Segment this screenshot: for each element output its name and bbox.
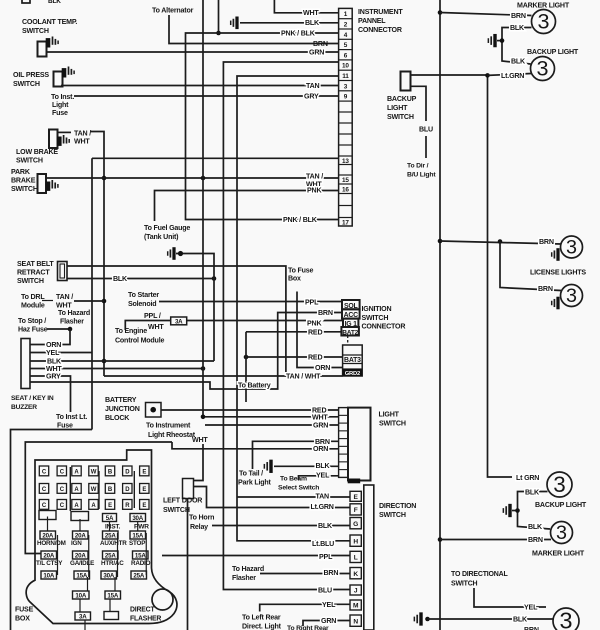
wire rheostat to light switch GRN xyxy=(205,424,338,426)
svg-text:15A: 15A xyxy=(135,553,146,560)
seat key in buzzer connector xyxy=(21,339,30,389)
svg-text:GRN: GRN xyxy=(321,617,336,625)
svg-text:AUX/HTR: AUX/HTR xyxy=(100,540,127,547)
wire engine control module to 3A fuse xyxy=(125,321,170,331)
wire ground vertical to buzzer BLK wire xyxy=(176,254,214,362)
svg-text:LOW BRAKE: LOW BRAKE xyxy=(16,148,58,156)
svg-text:PPL /: PPL / xyxy=(144,312,161,320)
svg-text:25A: 25A xyxy=(105,533,116,540)
svg-text:Lt.GRN: Lt.GRN xyxy=(311,503,334,511)
wire ground to pin 2 BLK xyxy=(240,22,339,24)
svg-text:SWITCH: SWITCH xyxy=(22,27,49,35)
wire PPL from fuse box to direction L xyxy=(162,555,350,557)
instrument panel connector xyxy=(339,8,353,226)
svg-text:To Inst.: To Inst. xyxy=(51,93,74,101)
svg-text:25A: 25A xyxy=(105,553,116,560)
svg-text:YEL: YEL xyxy=(322,601,336,609)
svg-text:W: W xyxy=(91,487,97,493)
svg-text:YEL: YEL xyxy=(46,349,60,357)
wire WHT to light switch xyxy=(203,416,338,418)
svg-text:BACKUP LIGHT: BACKUP LIGHT xyxy=(527,48,579,56)
wire alternator to pin 5 BRN xyxy=(169,15,339,44)
license light bulb 2 xyxy=(561,285,583,307)
backup light bulb lower xyxy=(547,472,572,497)
svg-text:SWITCH: SWITCH xyxy=(13,80,40,88)
svg-text:SWITCH: SWITCH xyxy=(163,506,190,514)
wire fuse box feed loop xyxy=(25,442,172,554)
wire RED to BAT2 xyxy=(246,331,341,333)
svg-text:Box: Box xyxy=(288,275,301,283)
wire starter solenoid to SOL xyxy=(159,301,342,303)
svg-text:BRN: BRN xyxy=(528,536,543,544)
fuse 25A aux xyxy=(103,531,119,539)
wire ORN jog from W2 to light switch xyxy=(172,442,338,449)
park brake switch xyxy=(38,174,47,193)
svg-text:BRN: BRN xyxy=(313,40,328,48)
svg-text:TAN: TAN xyxy=(316,493,330,501)
node dot bottom ground xyxy=(425,617,430,622)
svg-text:BRN: BRN xyxy=(324,569,339,577)
svg-text:20A: 20A xyxy=(75,553,86,560)
svg-text:SWITCH: SWITCH xyxy=(387,113,414,121)
svg-text:GRD2: GRD2 xyxy=(345,371,360,377)
svg-text:Lt GRN: Lt GRN xyxy=(516,474,539,482)
svg-text:PANNEL: PANNEL xyxy=(358,17,386,25)
node dot battery tap xyxy=(244,355,249,360)
svg-text:RED: RED xyxy=(308,328,322,336)
svg-text:SWITCH: SWITCH xyxy=(17,277,44,285)
ground symbol license 1 xyxy=(551,252,553,257)
node dot right vertical at license lights xyxy=(438,239,443,244)
wire horn relay BLK to direction G xyxy=(212,525,350,527)
ignition BAT2 box xyxy=(341,327,359,336)
wire GRN bracket to direction N xyxy=(303,621,350,627)
svg-text:SWITCH: SWITCH xyxy=(11,185,38,193)
node dot pin4 junction xyxy=(216,31,221,36)
svg-text:15A: 15A xyxy=(107,593,118,600)
svg-text:WHT: WHT xyxy=(148,323,164,331)
node dot WHT at long vertical xyxy=(201,366,206,371)
svg-text:LICENSE LIGHTS: LICENSE LIGHTS xyxy=(530,269,586,277)
svg-text:HORN/DM: HORN/DM xyxy=(37,540,66,547)
svg-text:WHT: WHT xyxy=(192,436,208,444)
svg-text:BLK: BLK xyxy=(528,523,543,531)
fuse 10A c xyxy=(73,591,90,599)
svg-text:15A: 15A xyxy=(76,573,87,580)
ignition ACC box xyxy=(342,309,360,318)
svg-text:PNK / BLK: PNK / BLK xyxy=(283,216,318,224)
svg-text:E: E xyxy=(108,503,112,509)
wire pin 4 riser xyxy=(218,0,220,33)
fuse 15A radio xyxy=(133,551,149,559)
svg-text:Solenoid: Solenoid xyxy=(128,300,156,308)
wire low brake switch TAN/WHT xyxy=(57,131,71,133)
wire to license lights BRN xyxy=(440,241,561,244)
node dot TAN/WHT vertical at park brake wire xyxy=(102,176,107,181)
svg-text:To Inst Lt.: To Inst Lt. xyxy=(56,413,87,421)
svg-text:T/L CTSY: T/L CTSY xyxy=(36,560,63,567)
fuse 20A tl xyxy=(41,551,57,559)
svg-text:TAN /: TAN / xyxy=(56,293,73,301)
wire pin 10 to Lt.BLU direction switch H xyxy=(223,62,350,590)
wire vertical below WHT label to door switch xyxy=(194,444,204,481)
wire pin13 vertical down to fuse loop xyxy=(91,158,93,429)
svg-text:E: E xyxy=(142,470,146,476)
svg-text:Fuse: Fuse xyxy=(57,422,73,430)
wire seat belt switch bottom, BLK xyxy=(67,278,214,280)
fuse 3A xyxy=(171,317,187,325)
svg-text:Relay: Relay xyxy=(190,523,208,531)
svg-text:M: M xyxy=(353,603,359,610)
wire BRN to direction K xyxy=(260,573,350,575)
svg-text:DIRECTION: DIRECTION xyxy=(379,502,416,510)
svg-text:Light: Light xyxy=(52,101,69,109)
svg-text:PNK / BLK: PNK / BLK xyxy=(281,30,316,38)
svg-text:HTR/AC: HTR/AC xyxy=(101,560,124,567)
fuse box outline xyxy=(26,450,177,624)
svg-text:BATTERY: BATTERY xyxy=(105,396,137,404)
node dot right vertical top xyxy=(438,10,443,15)
wire pin 4 PNK/BLK xyxy=(219,32,339,34)
svg-text:JUNCTION: JUNCTION xyxy=(105,405,140,413)
svg-text:OIL PRESS: OIL PRESS xyxy=(13,71,49,79)
svg-text:ORN: ORN xyxy=(46,341,61,349)
svg-text:SWITCH: SWITCH xyxy=(451,581,478,588)
svg-text:GRN: GRN xyxy=(309,49,324,57)
svg-text:BLK: BLK xyxy=(513,616,528,624)
battery junction block xyxy=(146,403,162,418)
svg-text:SWITCH: SWITCH xyxy=(362,314,389,322)
svg-text:To DRL: To DRL xyxy=(21,293,45,301)
wire BLK bottom to bulb xyxy=(428,618,554,620)
node dot ground junction xyxy=(500,38,505,43)
svg-text:To Engine: To Engine xyxy=(115,327,147,335)
svg-text:Module: Module xyxy=(21,302,45,310)
ground symbol tail park xyxy=(263,464,265,469)
wire YEL bracket to direction M xyxy=(260,604,350,611)
svg-text:3: 3 xyxy=(566,285,577,307)
wire pin4 to pin17 link xyxy=(186,33,339,220)
svg-text:BLK: BLK xyxy=(510,24,525,32)
wire backup lower BLK ground xyxy=(518,492,551,530)
svg-text:MARKER LIGHT: MARKER LIGHT xyxy=(532,550,585,558)
ground symbol lower backup xyxy=(502,508,504,513)
svg-text:YEL: YEL xyxy=(524,604,538,612)
svg-text:To Instrument: To Instrument xyxy=(146,422,191,430)
blank fuse bottom xyxy=(104,612,119,620)
svg-text:SWITCH: SWITCH xyxy=(16,157,43,165)
wire pin 13 feed xyxy=(92,157,339,159)
svg-text:GRY: GRY xyxy=(46,373,61,381)
svg-text:BLK: BLK xyxy=(525,489,540,497)
svg-text:GRN: GRN xyxy=(313,422,328,430)
svg-text:10A: 10A xyxy=(43,573,54,580)
svg-text:CONNECTOR: CONNECTOR xyxy=(362,323,406,331)
fuse 15A stop xyxy=(130,531,146,539)
svg-text:TAN: TAN xyxy=(306,82,320,90)
svg-text:GA/IDLE: GA/IDLE xyxy=(70,560,94,567)
svg-text:3: 3 xyxy=(556,522,567,544)
node dot second vertical top xyxy=(485,73,490,78)
wire TAN branch to direction switch E xyxy=(237,496,350,498)
svg-text:W: W xyxy=(91,470,97,476)
node dot license branch xyxy=(498,239,503,244)
svg-text:FLASHER: FLASHER xyxy=(130,616,161,623)
bottom right bulb xyxy=(553,608,579,630)
svg-text:ORN: ORN xyxy=(313,445,328,453)
wire to marker light BRN xyxy=(440,13,532,16)
svg-text:BLU: BLU xyxy=(419,126,433,134)
fuse 30A b xyxy=(101,571,117,579)
svg-text:IGNITION: IGNITION xyxy=(362,305,392,313)
wire RED to BAT3 xyxy=(246,356,343,358)
wire DRL tap xyxy=(74,300,104,302)
svg-text:DIRECT: DIRECT xyxy=(130,607,155,614)
svg-text:SEAT / KEY IN: SEAT / KEY IN xyxy=(11,395,54,402)
oil press switch xyxy=(54,72,63,87)
svg-text:25A: 25A xyxy=(133,573,144,580)
wire BLK to ground vertical xyxy=(30,360,214,362)
fuse 15A b xyxy=(74,571,90,579)
fuse 20A ign xyxy=(73,531,89,539)
svg-text:SWITCH: SWITCH xyxy=(379,511,406,519)
svg-text:3: 3 xyxy=(553,472,566,497)
svg-text:BLOCK: BLOCK xyxy=(105,414,130,422)
svg-text:SEAT BELT: SEAT BELT xyxy=(17,260,54,268)
svg-text:17: 17 xyxy=(342,219,349,226)
svg-text:To Right Rear: To Right Rear xyxy=(287,625,329,630)
svg-text:(Tank Unit): (Tank Unit) xyxy=(144,233,179,241)
dash after To DRL xyxy=(42,300,53,302)
node dot haz fuse junction xyxy=(68,327,73,332)
wire LtGRN dot to backup bulb xyxy=(488,74,532,76)
svg-text:BACKUP LIGHT: BACKUP LIGHT xyxy=(535,501,587,509)
svg-text:WHT: WHT xyxy=(312,414,328,422)
fuse 10A xyxy=(41,571,57,579)
svg-text:BLK: BLK xyxy=(113,275,128,283)
wire BRN to light switch with To Tail Park Light stub xyxy=(253,441,339,469)
svg-text:CONNECTOR: CONNECTOR xyxy=(358,26,402,34)
fuse 20A gaidle xyxy=(73,551,89,559)
svg-text:Park Light: Park Light xyxy=(238,479,272,487)
svg-text:TO DIRECTIONAL: TO DIRECTIONAL xyxy=(451,571,508,578)
wire junction block to light switch RED xyxy=(161,409,338,411)
direction switch connector xyxy=(350,491,361,501)
svg-text:BRN: BRN xyxy=(539,238,554,246)
node dot BLK at ground vertical xyxy=(212,276,217,281)
svg-text:BOX: BOX xyxy=(15,615,30,623)
svg-text:15: 15 xyxy=(342,177,349,184)
light switch bottom dark cell xyxy=(348,479,361,484)
node dot right vertical at marker light xyxy=(438,537,443,542)
svg-text:RED: RED xyxy=(308,354,322,362)
fuse 20A horn xyxy=(40,531,56,539)
wire door switch down to bottom xyxy=(187,499,189,630)
svg-text:To Fuse: To Fuse xyxy=(288,267,314,275)
svg-text:3: 3 xyxy=(559,608,572,630)
blank fuse slot 1 xyxy=(39,511,56,520)
svg-text:WHT: WHT xyxy=(303,9,319,17)
svg-text:H: H xyxy=(353,538,358,545)
fuse grid column rails xyxy=(69,467,71,511)
wire junction down to ORN xyxy=(30,329,70,345)
coolant temp switch xyxy=(38,42,47,57)
wire 3A to IG 1 xyxy=(187,320,343,322)
svg-text:INSTRUMENT: INSTRUMENT xyxy=(358,8,403,16)
license light bulb 1 xyxy=(561,236,583,258)
svg-text:20A: 20A xyxy=(75,533,86,540)
wire WHT xyxy=(30,368,203,370)
svg-text:BAT2: BAT2 xyxy=(342,329,358,336)
svg-text:3: 3 xyxy=(537,8,549,33)
ignition SOL box xyxy=(342,300,360,309)
svg-text:Select Switch: Select Switch xyxy=(278,485,319,492)
svg-text:YEL: YEL xyxy=(316,471,330,479)
ground symbol bottom xyxy=(413,617,415,622)
svg-text:3: 3 xyxy=(566,236,577,258)
wire buzzer bottom jog to ignition ACC BRN xyxy=(30,313,342,390)
svg-text:E: E xyxy=(142,503,146,509)
backup light bulb top xyxy=(531,57,555,81)
fuse 3A bottom xyxy=(75,612,91,620)
svg-text:BRAKE: BRAKE xyxy=(11,177,36,185)
wire BLU to To Dir xyxy=(425,136,427,158)
wire inst light fuse to pin 9, GRY xyxy=(74,95,339,97)
wire ground to BLK light switch xyxy=(274,465,338,467)
svg-text:To Tail /: To Tail / xyxy=(239,470,263,478)
svg-text:BLK: BLK xyxy=(318,522,333,530)
svg-text:To Horn: To Horn xyxy=(189,514,214,522)
seat belt retract switch xyxy=(58,262,68,281)
svg-text:LEFT DOOR: LEFT DOOR xyxy=(163,497,202,505)
svg-text:BUZZER: BUZZER xyxy=(11,404,37,411)
svg-text:BLK: BLK xyxy=(48,0,61,5)
svg-text:To Fuel Gauge: To Fuel Gauge xyxy=(144,224,190,232)
wire fuse loop down left side xyxy=(11,430,93,630)
svg-text:To Stop /: To Stop / xyxy=(18,317,46,325)
wire second right vertical to backup light xyxy=(488,75,513,477)
svg-text:To Battery: To Battery xyxy=(238,382,271,390)
svg-text:IGN: IGN xyxy=(71,540,82,547)
svg-text:BLK: BLK xyxy=(316,462,331,470)
svg-text:To Starter: To Starter xyxy=(128,291,159,299)
svg-text:To Dir /: To Dir / xyxy=(407,163,429,170)
direction switch body xyxy=(364,485,374,630)
svg-text:PNK: PNK xyxy=(307,187,322,195)
svg-text:G: G xyxy=(353,521,358,528)
light switch connector xyxy=(339,408,348,478)
svg-text:BRN: BRN xyxy=(524,626,539,630)
svg-text:Flasher: Flasher xyxy=(232,574,256,582)
wire pin 11 to Lt.BLU direction switch H xyxy=(237,76,350,541)
wire backup switch lower to BLU label xyxy=(411,86,427,121)
svg-text:BRN: BRN xyxy=(318,309,333,317)
fuse letter grid xyxy=(39,466,48,476)
svg-text:LIGHT: LIGHT xyxy=(387,104,408,112)
wire backup switch to Lt.GRN xyxy=(411,74,488,76)
fuse 5A xyxy=(103,514,117,522)
svg-text:WHT: WHT xyxy=(74,138,90,146)
svg-text:F: F xyxy=(354,507,358,514)
svg-text:10A: 10A xyxy=(75,593,86,600)
svg-text:TAN /: TAN / xyxy=(74,130,91,138)
wire YEL xyxy=(30,352,92,354)
node dot TAN/WHT vertical at DRL tap xyxy=(102,299,107,304)
svg-text:3A: 3A xyxy=(175,318,183,325)
svg-text:3: 3 xyxy=(536,55,548,80)
svg-text:13: 13 xyxy=(342,158,349,165)
svg-text:Control Module: Control Module xyxy=(115,337,164,345)
ground symbol license 2 xyxy=(551,301,553,306)
ground symbol pin 2 xyxy=(230,21,232,26)
svg-text:BLU: BLU xyxy=(318,587,332,595)
ground symbol marker/backup xyxy=(487,38,489,43)
svg-text:To Left Rear: To Left Rear xyxy=(242,613,281,621)
ignition IG 1 box xyxy=(343,319,358,327)
svg-text:Lt.GRN: Lt.GRN xyxy=(501,72,524,80)
node dot long vertical at WHT wire xyxy=(201,415,206,420)
wire directional switch to YEL xyxy=(474,588,546,607)
svg-text:5A: 5A xyxy=(106,515,114,522)
wire haz fuse to ORN junction xyxy=(47,328,71,330)
svg-text:J: J xyxy=(354,588,358,595)
marker light bulb lower xyxy=(551,522,573,544)
left door switch xyxy=(183,479,194,499)
svg-text:Flasher: Flasher xyxy=(60,318,84,326)
ground symbol fuel gauge area xyxy=(167,251,169,256)
svg-text:16: 16 xyxy=(342,186,349,193)
svg-text:L: L xyxy=(354,555,358,562)
wire coolant temp switch to instrument panel pin 6, GRN xyxy=(46,51,339,53)
wire YEL bracket to light switch xyxy=(299,476,339,480)
light switch body xyxy=(348,408,371,481)
svg-text:TAN / WHT: TAN / WHT xyxy=(286,373,321,381)
svg-text:FUSE: FUSE xyxy=(15,606,34,614)
fuse 30A xyxy=(130,514,146,522)
svg-text:Haz Fuse: Haz Fuse xyxy=(18,326,48,334)
wire door switch to Lt.GRN direction F xyxy=(194,487,351,508)
svg-text:INST.: INST. xyxy=(105,524,120,531)
wire long vertical from top to left door switch xyxy=(202,0,204,417)
svg-text:Direct. Light: Direct. Light xyxy=(242,623,282,630)
svg-text:PARK: PARK xyxy=(11,168,31,176)
svg-text:PNK: PNK xyxy=(307,319,322,327)
svg-text:ORN: ORN xyxy=(315,364,330,372)
svg-text:E: E xyxy=(142,487,146,493)
svg-text:K: K xyxy=(353,571,358,578)
wire BRN to marker lower xyxy=(440,539,551,541)
wire TAN/WHT to ignition GRD2 xyxy=(104,375,343,377)
svg-text:B/U Light: B/U Light xyxy=(407,172,436,179)
fuse 25A b xyxy=(131,571,147,579)
top left fragment xyxy=(22,0,30,3)
svg-text:SWITCH: SWITCH xyxy=(379,420,406,428)
wire marker BLK to ground xyxy=(502,28,532,65)
svg-text:Lt.BLU: Lt.BLU xyxy=(312,540,334,548)
svg-text:GRY: GRY xyxy=(304,92,319,100)
svg-text:20A: 20A xyxy=(42,533,53,540)
svg-text:To Hazard: To Hazard xyxy=(58,309,90,317)
svg-text:RETRACT: RETRACT xyxy=(17,269,50,277)
svg-text:Light Rheostat: Light Rheostat xyxy=(148,431,196,439)
svg-text:3A: 3A xyxy=(79,614,87,621)
wire right main vertical xyxy=(439,0,441,630)
svg-text:STOP: STOP xyxy=(129,540,145,547)
svg-text:15A: 15A xyxy=(132,533,143,540)
svg-text:LIGHT: LIGHT xyxy=(379,411,400,419)
svg-text:BLK: BLK xyxy=(305,19,320,27)
svg-text:BLK: BLK xyxy=(511,57,526,65)
